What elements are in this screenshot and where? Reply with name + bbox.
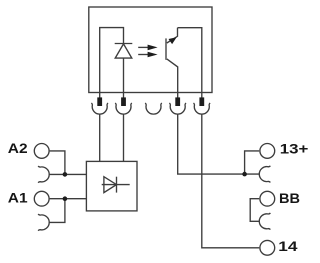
socket A1: [38, 214, 49, 231]
wire: socket5 down to 14: [202, 114, 259, 248]
wire: 13+ down to node: [245, 151, 260, 174]
phototransistor Q1 base bar: [165, 38, 167, 59]
wire: socket A1 up to node: [49, 199, 65, 223]
pin 5: [199, 97, 204, 106]
wire: socket4 down to 13+ node: [178, 114, 260, 174]
pin 2: [121, 97, 126, 106]
svg-text:A2: A2: [8, 140, 28, 156]
wire: LED cathode bracket to pin 1: [100, 28, 124, 98]
pin 4: [175, 97, 180, 106]
Q1 collector lead with arrow: [167, 28, 178, 43]
input protection box: [86, 161, 137, 211]
terminal circle A2: [34, 144, 49, 159]
wire: collector bracket to pin 5: [178, 28, 202, 98]
Q1 emitter lead to pin 4: [167, 59, 178, 98]
terminal circle 14: [260, 240, 275, 255]
socket 5: [194, 103, 211, 114]
wire: socket A2 to input box: [49, 173, 87, 175]
socket 13+: [259, 166, 270, 183]
LED D1 triangle: [115, 44, 132, 58]
terminal circle BB: [260, 191, 275, 206]
pin 1: [97, 97, 102, 106]
wire: socket2 to input box: [123, 114, 125, 161]
svg-text:BB: BB: [279, 190, 300, 206]
light arrow 2: [138, 54, 149, 56]
junction node A2: [63, 172, 68, 177]
wire: BB bracket: [250, 199, 259, 222]
wire: LED anode to pin 2: [123, 58, 125, 97]
socket 4: [169, 103, 186, 114]
junction node 13+: [242, 172, 247, 177]
LED D1 cathode bar: [115, 43, 133, 45]
socket A2: [38, 166, 49, 183]
wire: A1 to input box: [50, 198, 87, 200]
socket 2: [115, 103, 132, 114]
wire: socket1 to input box: [99, 114, 101, 161]
terminal circle A1: [34, 191, 49, 206]
svg-text:13+: 13+: [280, 140, 309, 156]
svg-text:14: 14: [278, 238, 297, 254]
junction node A1: [63, 196, 68, 201]
diode D2: [102, 184, 130, 186]
wire: A2 to node: [50, 151, 65, 175]
socket 1: [91, 103, 108, 114]
relay module outer box: [89, 7, 212, 93]
socket 3 (empty): [145, 103, 162, 114]
terminal circle 13+: [260, 144, 275, 159]
light arrow 1: [138, 46, 149, 48]
svg-text:A1: A1: [8, 190, 28, 206]
socket BB: [259, 213, 270, 230]
